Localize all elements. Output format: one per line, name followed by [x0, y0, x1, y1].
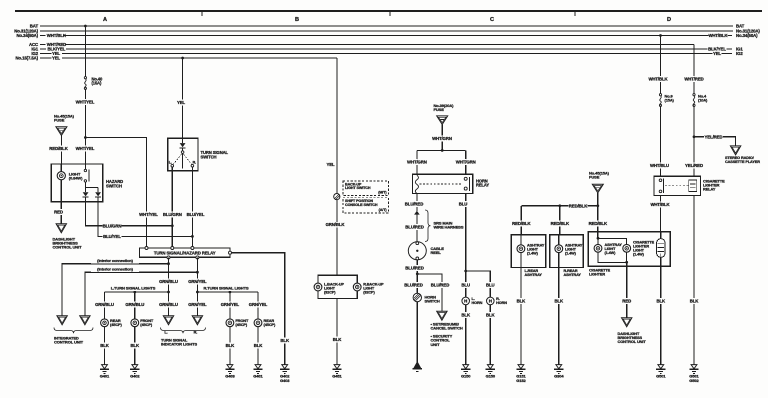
- svg-text:G401: G401: [100, 374, 110, 379]
- wire WHT/BLK relay to cigarette lighter element: [660, 196, 662, 232]
- ground horn switch: [414, 362, 421, 368]
- connector dashlight brightness control unit right: [622, 318, 632, 327]
- label YEL/RED: [685, 163, 704, 169]
- svg-text:WHT/BLK: WHT/BLK: [47, 33, 67, 38]
- relay terminal bottom GRN/BLU: [167, 256, 170, 259]
- label YEL: [176, 100, 185, 106]
- wire BLU/RED cable reel to horn switch: [416, 260, 418, 293]
- wire WHT/GRN fuse to horn relay: [441, 125, 443, 151]
- svg-text:(Interior connection): (Interior connection): [97, 258, 134, 263]
- turn signal switch box: [168, 138, 198, 171]
- svg-text:SWITCH: SWITCH: [425, 298, 440, 303]
- svg-text:B: B: [295, 17, 299, 23]
- wire IG2 YEL bus: [40, 53, 52, 55]
- lamp L rear turn signal REAR (45CP): [101, 319, 109, 327]
- svg-text:G451: G451: [332, 374, 342, 379]
- label WHT/YEL on relay feed: [139, 212, 158, 218]
- wire L turn signal lights bus: [105, 291, 169, 293]
- ground G150 L horn: [463, 365, 469, 369]
- label WHT/YEL: [76, 145, 95, 151]
- lamp R rear turn signal REAR (45CP): [254, 319, 262, 327]
- svg-text:HORN: HORN: [496, 301, 507, 305]
- wire BAT bus: [40, 25, 733, 27]
- node WHT/BLK tap to cigarette lighter fuse: [659, 34, 662, 37]
- svg-text:RED/BLK: RED/BLK: [569, 203, 588, 208]
- wire GRN/BLK switch to back-up lights: [336, 200, 338, 276]
- cigarette lighter relay contacts: [659, 179, 662, 182]
- svg-text:SWITCH: SWITCH: [106, 183, 122, 188]
- wire RED/BLK distribution: [521, 205, 598, 207]
- relay terminal bottom GRN/YEL: [196, 256, 199, 259]
- svg-text:ASHTRAY: ASHTRAY: [564, 273, 582, 277]
- fuse No.9 (15A): [659, 94, 661, 96]
- svg-text:R.: R.: [194, 331, 198, 335]
- svg-text:(M/T): (M/T): [378, 191, 387, 195]
- cigarette lighter relay dashed link: [665, 185, 689, 187]
- svg-text:C: C: [490, 17, 494, 23]
- svg-text:G401: G401: [253, 374, 263, 379]
- connector integrated control unit 2: [80, 316, 90, 325]
- brace turn signal indicator lights: [161, 328, 206, 334]
- label GRN/YEL: [188, 279, 207, 285]
- svg-text:CONTROL UNIT: CONTROL UNIT: [54, 340, 84, 345]
- svg-text:GRN/BLU: GRN/BLU: [125, 302, 144, 307]
- svg-text:GRN/BLU: GRN/BLU: [95, 302, 114, 307]
- svg-text:BLU/GRN: BLU/GRN: [163, 212, 182, 217]
- fuse No.4 (10A): [693, 94, 695, 96]
- connector dashlight brightness control unit: [56, 224, 66, 233]
- wire BLK ashtray R to ground: [558, 268, 560, 365]
- svg-text:WHT/GRN: WHT/GRN: [407, 159, 427, 164]
- svg-text:CONSOLE SWITCH: CONSOLE SWITCH: [345, 203, 378, 207]
- turn signal switch L contact: [171, 164, 174, 167]
- svg-text:WHT/GRN: WHT/GRN: [456, 159, 476, 164]
- wire BLK L front turn light to ground: [134, 327, 136, 365]
- svg-text:G150: G150: [461, 374, 471, 379]
- wire YEL No.15 fuse to turn signal switch: [182, 58, 184, 143]
- svg-text:FUSE: FUSE: [589, 175, 600, 180]
- cigarette lighter relay box: [654, 176, 701, 195]
- svg-text:RED: RED: [54, 209, 63, 214]
- svg-text:(45CP): (45CP): [140, 322, 153, 327]
- connector set/resume cancel switch: [437, 311, 447, 320]
- svg-text:BLU: BLU: [459, 201, 468, 206]
- back-up light switch symbol: [334, 194, 340, 200]
- svg-text:RED/BLK: RED/BLK: [551, 221, 570, 226]
- svg-text:GRN/YEL: GRN/YEL: [249, 302, 268, 307]
- svg-text:WHT/BLK: WHT/BLK: [648, 76, 668, 81]
- svg-text:(A/T): (A/T): [379, 208, 388, 212]
- svg-text:CASSETTE PLAYER: CASSETTE PLAYER: [725, 160, 760, 164]
- svg-text:L.TURN SIGNAL LIGHTS: L.TURN SIGNAL LIGHTS: [111, 285, 156, 290]
- svg-text:L.: L.: [169, 160, 172, 164]
- svg-text:BLU: BLU: [486, 282, 495, 287]
- svg-text:WHT/YEL: WHT/YEL: [139, 212, 158, 217]
- label BLU/RED: [431, 282, 450, 288]
- node horn switch branch: [416, 273, 419, 276]
- wire RED/BLK fuse No.45 to hazard light: [60, 135, 62, 164]
- svg-text:INDICATOR LIGHTS: INDICATOR LIGHTS: [161, 342, 197, 347]
- svg-text:BLK: BLK: [657, 298, 667, 303]
- ground G401: [102, 365, 108, 369]
- wire BLK R rear turn light to ground: [257, 327, 259, 365]
- wire YEL/RED to stereo radio cassette player: [694, 137, 736, 146]
- node No.15 tap to turn signal switch: [181, 57, 184, 60]
- svg-text:RELAY: RELAY: [703, 186, 716, 191]
- wire BLK relay coil to ground: [693, 196, 695, 365]
- node BAT tap to hazard fuse No.40: [84, 25, 87, 28]
- label GRN/YEL: [188, 302, 207, 308]
- fuse No.40 (15A): [84, 77, 86, 79]
- wire WHT/YEL branch to turn signal/hazard relay: [85, 138, 146, 249]
- cigarette lighter relay coil: [689, 180, 697, 191]
- svg-text:YEL/RED: YEL/RED: [685, 163, 703, 168]
- L rear ashtray box: [511, 235, 545, 268]
- svg-text:G403: G403: [225, 374, 235, 379]
- svg-text:BLK: BLK: [131, 343, 141, 348]
- svg-text:TURN SIGNAL/HAZARD RELAY: TURN SIGNAL/HAZARD RELAY: [154, 251, 216, 256]
- wire No.15(7.5A) YEL bus: [40, 57, 52, 59]
- svg-text:G150: G150: [486, 374, 496, 379]
- cigarette lighter wiring loop: [598, 238, 627, 262]
- hazard switch contacts: [84, 164, 86, 169]
- svg-text:BLK: BLK: [555, 298, 565, 303]
- label L.TURN SIGNAL LIGHTS: [110, 285, 157, 291]
- svg-text:GRN/YEL: GRN/YEL: [188, 302, 207, 307]
- svg-text:(0.84W): (0.84W): [69, 175, 83, 180]
- svg-text:G402: G402: [130, 374, 140, 379]
- svg-text:(45CP): (45CP): [235, 322, 248, 327]
- svg-text:(10A): (10A): [698, 97, 708, 102]
- R rear ashtray box: [550, 235, 584, 268]
- horn relay contact dashed link: [420, 183, 463, 185]
- svg-text:YEL: YEL: [713, 51, 722, 56]
- node BLU/GRN junction: [171, 224, 174, 227]
- svg-text:BLK: BLK: [226, 343, 236, 348]
- svg-text:(15A): (15A): [665, 97, 675, 102]
- relay terminal top WHT/YEL: [145, 247, 148, 250]
- label RED/BLK 2: [550, 221, 569, 227]
- svg-text:D: D: [667, 17, 671, 23]
- svg-text:BLU/RED: BLU/RED: [431, 282, 449, 287]
- label BLU right: [486, 282, 495, 288]
- hazard switch box: [51, 164, 102, 202]
- wire BLK R front turn light to ground: [229, 327, 231, 365]
- svg-text:(32CP): (32CP): [324, 290, 336, 294]
- turn signal switch common contact: [181, 151, 184, 154]
- svg-text:BLK: BLK: [333, 337, 343, 342]
- svg-text:YEL: YEL: [177, 100, 186, 105]
- hazard indicator light LIGHT (0.84W): [60, 164, 62, 172]
- turn signal switch wiper dashed R: [184, 154, 192, 164]
- svg-text:WHT/BLK: WHT/BLK: [650, 202, 670, 207]
- label BLU/RED: [404, 282, 423, 288]
- svg-text:BLU/RED: BLU/RED: [404, 282, 422, 287]
- wire BLK ashtray L to ground: [520, 268, 522, 365]
- label GRN/BLU: [159, 279, 178, 285]
- wire BLK relay ground: [232, 253, 285, 365]
- label BLU/GRN: [103, 223, 122, 229]
- wire RED hazard light to dashlight brightness control unit: [60, 202, 62, 224]
- svg-text:G403: G403: [280, 378, 290, 383]
- ground G402 G403 relay: [282, 365, 288, 369]
- ground G402: [132, 365, 138, 369]
- wire interior connection GRN/BLU to integrated control unit: [62, 264, 168, 316]
- svg-text:BLK: BLK: [486, 313, 496, 318]
- cigarette lighter box: [588, 232, 670, 267]
- svg-text:YEL: YEL: [326, 162, 335, 167]
- connector integrated control unit 1: [57, 316, 67, 325]
- horn relay contacts: [464, 177, 467, 180]
- svg-text:UNIT: UNIT: [431, 342, 441, 347]
- horn switch symbol: [413, 293, 421, 301]
- svg-text:BLU/GRN: BLU/GRN: [103, 223, 122, 228]
- wire BLU/GRN turn L to relay: [171, 167, 173, 248]
- label BLU/YEL: [103, 234, 122, 240]
- wire No.34(50A) WHT/BLK bus: [40, 35, 46, 37]
- lamp L back-up light (32CP): [314, 283, 322, 291]
- svg-text:GRN/BLU: GRN/BLU: [159, 279, 178, 284]
- svg-text:FUSE: FUSE: [54, 118, 65, 123]
- turn signal switch R contact: [191, 164, 194, 167]
- wire BLU/RED horn relay to cable reel: [416, 194, 418, 212]
- label GRN/BLU front: [125, 302, 144, 308]
- svg-text:GRN/BLU: GRN/BLU: [159, 302, 178, 307]
- svg-text:IG2: IG2: [736, 51, 743, 56]
- wire IG1 BLK/YEL bus: [40, 48, 46, 50]
- svg-text:SWITCH: SWITCH: [201, 154, 217, 159]
- diode hazard left: [83, 192, 89, 196]
- connector L turn indicator: [163, 316, 173, 325]
- ground G150 R horn: [487, 365, 493, 369]
- svg-text:RED/BLK: RED/BLK: [49, 146, 68, 151]
- svg-text:ASHTRAY: ASHTRAY: [525, 273, 543, 277]
- shift position console switch label box A/T: [343, 198, 389, 213]
- svg-text:No.15(7.5A): No.15(7.5A): [15, 56, 38, 61]
- svg-text:G304: G304: [554, 374, 564, 379]
- label BLU/RED: [405, 224, 424, 230]
- svg-text:LIGHT SWITCH: LIGHT SWITCH: [345, 186, 371, 190]
- svg-text:WHT/BLU: WHT/BLU: [650, 163, 669, 168]
- svg-text:WHT/YEL: WHT/YEL: [76, 146, 95, 151]
- svg-text:GRN/YEL: GRN/YEL: [188, 279, 207, 284]
- svg-text:LIGHTER: LIGHTER: [589, 272, 605, 276]
- wire No.31(120A) bus: [40, 30, 733, 32]
- label GRN/YEL front: [220, 302, 239, 308]
- svg-text:G501: G501: [656, 374, 666, 379]
- diode turn signal switch: [180, 143, 186, 147]
- wire BAT feed to hazard switch WHT/YEL: [84, 26, 86, 77]
- wire WHT/GRN to relay coil and contact: [417, 149, 466, 151]
- connector R turn indicator: [192, 316, 202, 325]
- svg-text:BLK: BLK: [100, 343, 110, 348]
- turn signal switch wiper dashed L: [173, 154, 181, 164]
- svg-text:WHT/GRN: WHT/GRN: [432, 136, 452, 141]
- ground G304: [556, 365, 562, 369]
- label RED/BLK 3: [588, 221, 607, 227]
- wire hazard switch to diodes: [86, 187, 99, 189]
- wire BLK cigarette lighter element to ground: [660, 257, 662, 364]
- node hazard feed branch to relay: [84, 136, 87, 139]
- label BLU/GRN: [163, 212, 182, 218]
- label GRN/YEL rear: [249, 302, 268, 308]
- label GRN/BLU: [159, 302, 178, 308]
- lamp L front turn signal FRONT (45CP): [131, 319, 139, 327]
- wire BLU branch to R horn: [466, 271, 491, 297]
- lamp R front turn signal FRONT (45CP): [226, 319, 234, 327]
- relay terminal top BLU/GRN: [171, 247, 174, 250]
- svg-text:HORN: HORN: [472, 301, 483, 305]
- svg-text:RED/BLK: RED/BLK: [589, 221, 608, 226]
- wire BLU/YEL turn R to relay: [191, 167, 193, 248]
- svg-text:BLK: BLK: [280, 338, 290, 343]
- wire BLU/YEL hazard diode to relay: [98, 197, 192, 236]
- svg-text:G502: G502: [689, 378, 699, 383]
- node BLU/YEL junction: [191, 235, 194, 238]
- svg-text:BLK: BLK: [517, 298, 527, 303]
- label GRN/BLU rear: [95, 302, 114, 308]
- horn relay box: [413, 174, 473, 193]
- wire R turn signal lights bus: [197, 291, 258, 293]
- wire RED loop to dashlight brightness control unit: [626, 262, 628, 318]
- label RED/BLK on distribution: [569, 203, 588, 209]
- label BLU left: [461, 282, 470, 288]
- wire horn switch to body ground: [416, 302, 418, 365]
- svg-text:BLU/YEL: BLU/YEL: [103, 234, 121, 239]
- svg-text:CONTROL UNIT: CONTROL UNIT: [618, 339, 647, 344]
- svg-text:(1.4W): (1.4W): [565, 251, 577, 255]
- lamp front ashtray light (1.4W): [594, 244, 602, 252]
- cigarette lighter element: [660, 232, 662, 239]
- connector stereo radio cassette player: [730, 146, 740, 155]
- horn R: [487, 297, 495, 305]
- relay terminal top BLU/YEL: [191, 247, 194, 250]
- border frame top rule: [15, 10, 762, 12]
- svg-text:BLU/YEL: BLU/YEL: [187, 212, 205, 217]
- ground G501 G502: [691, 365, 697, 369]
- wire BLU horn relay to horns: [465, 194, 467, 298]
- horn relay coil: [415, 175, 418, 193]
- label RED/BLK 1: [512, 221, 531, 227]
- svg-text:(15A): (15A): [92, 81, 102, 86]
- turn signal/hazard relay box: [140, 248, 231, 257]
- brace SRS main wire harness: [425, 210, 431, 242]
- ground G501: [658, 365, 664, 369]
- wire BLK L horn to ground: [465, 305, 467, 365]
- svg-text:BLU/RED: BLU/RED: [405, 201, 423, 206]
- wire GRN/YEL relay to R turn lights: [196, 257, 198, 315]
- svg-text:(45CP): (45CP): [264, 322, 277, 327]
- svg-text:(1.4W): (1.4W): [633, 252, 645, 256]
- svg-text:H: H: [464, 299, 467, 304]
- svg-text:H: H: [489, 299, 492, 304]
- svg-text:RELAY: RELAY: [476, 182, 489, 187]
- svg-text:RED: RED: [622, 298, 631, 303]
- diode hazard right: [95, 192, 101, 196]
- svg-text:BLK: BLK: [254, 343, 264, 348]
- svg-text:(Interior connection): (Interior connection): [97, 267, 134, 272]
- wire ACC WHT/RED bus: [40, 44, 46, 46]
- svg-text:BLK: BLK: [690, 298, 700, 303]
- svg-text:YEL: YEL: [52, 56, 61, 61]
- svg-text:BLU/RED: BLU/RED: [405, 265, 423, 270]
- svg-text:G152: G152: [516, 378, 526, 383]
- label WHT/BLU: [650, 163, 669, 169]
- svg-text:(1.4W): (1.4W): [605, 251, 617, 255]
- svg-text:No.34(50A): No.34(50A): [17, 33, 39, 38]
- svg-text:RED/BLK: RED/BLK: [512, 221, 531, 226]
- svg-text:R.: R.: [193, 160, 196, 164]
- wire interior connection GRN/YEL to integrated control unit: [85, 272, 197, 316]
- label R.TURN SIGNAL LIGHTS: [203, 285, 250, 291]
- ground G401: [255, 365, 261, 369]
- svg-text:REEL: REEL: [431, 250, 442, 255]
- back-up lights box: [318, 275, 357, 298]
- svg-text:(1.4W): (1.4W): [527, 251, 539, 255]
- svg-text:WHT/RED: WHT/RED: [684, 76, 703, 81]
- node horn feed split: [441, 149, 444, 152]
- wire YEL No.15 to back-up light switch: [336, 58, 338, 194]
- wire BLK back-up lights to ground: [336, 299, 338, 365]
- wire BLU/GRN hazard diode to relay: [86, 197, 173, 226]
- svg-text:(32CP): (32CP): [363, 290, 375, 294]
- lamp ashtray light R rear (1.4W): [558, 235, 560, 245]
- label WHT/YEL: [76, 99, 95, 105]
- wire BLK L rear turn light to ground: [104, 327, 106, 365]
- svg-text:BLU/RED: BLU/RED: [405, 224, 423, 229]
- lamp cigarette lighter light (1.4W): [623, 244, 631, 252]
- wire branch to set/resume cancel switch: [417, 274, 442, 311]
- cable reel: [408, 242, 426, 260]
- wire WHT/RED ACC to cigarette lighter relay: [693, 45, 695, 94]
- back-up light switch label box M/T: [343, 181, 389, 195]
- relay terminal right BLK: [229, 251, 232, 254]
- wire RED/BLK fuse to ashtray lights: [597, 193, 599, 239]
- ground G151 G152: [518, 365, 524, 369]
- svg-text:(45CP): (45CP): [110, 322, 123, 327]
- wire WHT/BLK to cigarette lighter relay: [660, 36, 662, 94]
- srs arrow: [414, 211, 420, 215]
- svg-text:WHT/YEL: WHT/YEL: [76, 99, 95, 104]
- label GRN/BLK: [326, 222, 345, 228]
- wire BLK R horn to ground: [489, 305, 491, 365]
- lamp ashtray light L rear (1.4W): [520, 235, 522, 245]
- ground G451: [334, 365, 340, 369]
- svg-text:WIRE HARNESS: WIRE HARNESS: [434, 225, 464, 230]
- label RED/BLK: [49, 145, 68, 151]
- svg-text:FUSE: FUSE: [434, 107, 445, 112]
- svg-text:CANCEL SWITCH: CANCEL SWITCH: [431, 325, 463, 330]
- node stereo branch: [693, 135, 696, 138]
- svg-text:CONTROL UNIT: CONTROL UNIT: [53, 244, 83, 249]
- svg-text:A: A: [103, 17, 107, 23]
- svg-text:BLU: BLU: [461, 282, 470, 287]
- svg-text:No.34(50A): No.34(50A): [736, 33, 758, 38]
- wire GRN/BLU relay to L turn lights: [168, 257, 170, 315]
- svg-text:YEL/RED: YEL/RED: [705, 134, 723, 139]
- node horn split: [464, 270, 467, 273]
- brace integrated control unit: [54, 328, 93, 334]
- ground G403: [227, 365, 233, 369]
- svg-text:GRN/YEL: GRN/YEL: [221, 302, 240, 307]
- svg-text:BLK: BLK: [461, 313, 471, 318]
- svg-text:R.TURN SIGNAL LIGHTS: R.TURN SIGNAL LIGHTS: [203, 285, 248, 290]
- horn L: [462, 297, 470, 305]
- svg-text:L.: L.: [164, 331, 167, 335]
- lamp R back-up light (32CP): [353, 283, 361, 291]
- svg-text:WHT/BLK: WHT/BLK: [708, 33, 728, 38]
- label BLU/YEL: [186, 212, 205, 218]
